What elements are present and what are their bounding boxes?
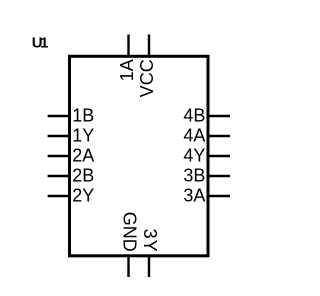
IC body U1 [70,56,209,256]
pin 3A [208,195,230,197]
pin 2A [48,155,70,157]
pin 1Y [48,135,70,137]
pin 4A [208,135,230,137]
pin 3B [208,175,230,177]
svg-text:4A: 4A [183,126,205,146]
svg-text:2B: 2B [72,166,94,186]
pin 2Y [48,195,70,197]
pin GND (bottom) [127,256,129,277]
svg-text:2Y: 2Y [72,186,94,206]
svg-text:3Y: 3Y [140,229,160,253]
pin 2B [48,175,70,177]
pin 4Y [208,155,230,157]
pin 3Y (bottom) [148,256,150,277]
pin 1A (top) [127,35,129,57]
svg-text:1Y: 1Y [72,126,94,146]
svg-text:2A: 2A [72,146,94,166]
svg-text:1A: 1A [117,59,137,81]
svg-text:GND: GND [120,212,140,252]
svg-text:VCC: VCC [137,59,157,97]
pin 4B [208,115,230,117]
svg-text:4B: 4B [183,106,205,126]
svg-text:U1: U1 [32,35,48,52]
svg-text:4Y: 4Y [183,146,205,166]
pin VCC (top) [148,35,150,57]
svg-text:1B: 1B [72,106,94,126]
pin 1B [48,115,70,117]
svg-text:3B: 3B [183,166,205,186]
svg-text:3A: 3A [183,186,205,206]
